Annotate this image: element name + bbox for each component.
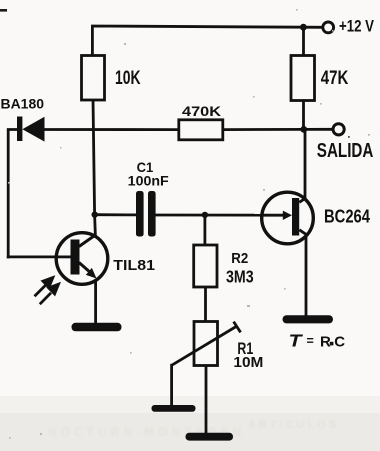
svg-text:T: T [289,330,304,350]
svg-text:BA180: BA180 [1,96,45,112]
transistor Q1 TIL81 [55,233,108,285]
diode BA180 [17,117,45,142]
wire diode row left stub [8,130,17,258]
svg-text:10M: 10M [233,355,263,371]
terminal +12V [323,22,334,33]
svg-text:470K: 470K [182,104,221,119]
wire 10K lead down to collector [93,99,95,237]
svg-text:R: R [320,333,331,350]
wire signal node to C1 [95,213,137,216]
terminal SALIDA [333,124,344,135]
ground wiper [152,405,196,412]
svg-text:+12 V: +12 V [339,18,374,36]
resistor R 470K [179,120,223,140]
node junction collector [92,211,98,217]
wire to SALIDA terminal [304,128,333,131]
ground TIL81 [72,323,122,332]
resistor R2 3M3 [194,245,217,287]
transistor Q2 BC264 [262,192,314,244]
page edge dash top-left [0,9,7,12]
svg-text:SALIDA: SALIDA [317,140,374,162]
node junction +12V [300,24,307,31]
node junction R2 [202,212,208,218]
node junction SALIDA [300,126,307,133]
wire R2 top lead [203,215,206,246]
svg-text:47K: 47K [321,67,349,89]
wire R2 to R1 [204,287,207,322]
svg-text:3M3: 3M3 [226,267,254,287]
resistor R 10K [82,56,105,101]
wire wiper drop [170,365,173,406]
svg-text:R2: R2 [231,251,248,267]
ground BC264 [283,315,334,323]
svg-text:C: C [334,333,345,350]
wire BC264 source [299,230,306,317]
svg-text:BC264: BC264 [324,206,370,227]
wire TIL81 emitter drop [94,277,97,324]
wire BC264 drain [299,129,305,202]
wire R1 bottom lead [205,365,208,434]
svg-text:ARTICULOS: ARTICULOS [248,419,339,431]
wire top rail [92,26,303,56]
wire diode to 470K [44,128,179,131]
light arrows [35,278,59,305]
formula T = R.C [289,330,346,350]
svg-text:100nF: 100nF [128,174,169,189]
bottom scan band [0,413,380,451]
wire C1 to gate [156,214,285,217]
capacitor C1 [136,191,156,237]
svg-text:10K: 10K [115,67,141,89]
svg-text:TIL81: TIL81 [113,257,155,274]
wire base run to TIL81 [8,255,70,258]
wire right rail through 47K [302,27,305,129]
wire 470K to right rail [223,128,304,131]
resistor R 47K [291,56,315,101]
svg-text:=: = [307,334,314,348]
ground R1 [186,433,234,441]
wire +12V stub [303,26,322,29]
resistor R1 10M (variable) [194,322,218,366]
wiper arrow R1 [172,326,237,365]
